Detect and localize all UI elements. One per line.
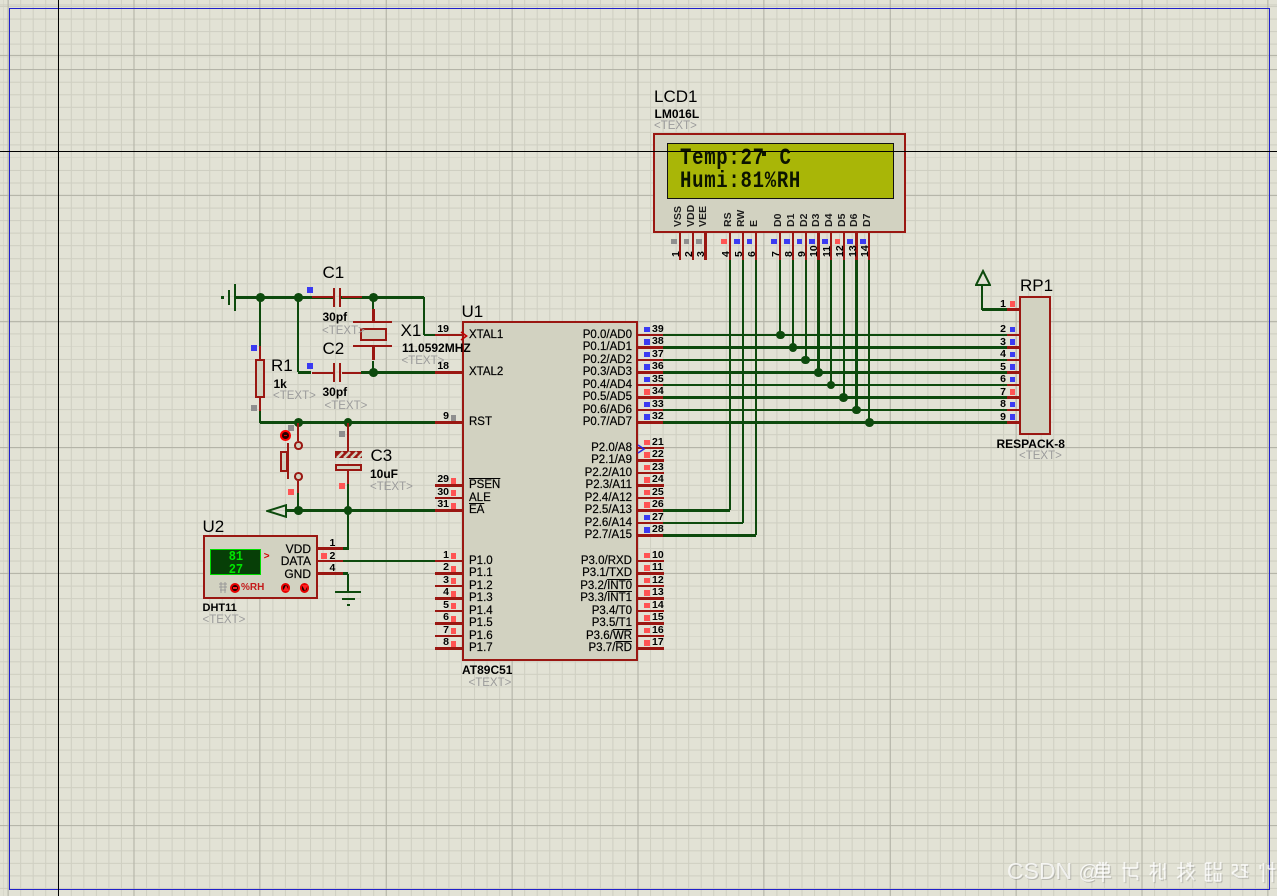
IC U1 AT89C51 body	[462, 321, 638, 661]
U1 pin 33 (P0.6)	[0, 0, 1277, 1]
wire: EA rail down to U2 VDD	[347, 511, 349, 549]
C1 logic-state square (blue)	[307, 287, 313, 293]
LCD1 pin 11 (D4)	[0, 0, 1277, 1]
LCD1 pin 12 (D5)	[0, 0, 1277, 1]
U1 pin 26 (P2.5)	[0, 0, 1277, 1]
capacitor C1	[0, 0, 1277, 1]
U1 pin 39 (P0.0)	[0, 0, 1277, 1]
value 30pf C1	[323, 311, 348, 324]
button interaction target	[0, 0, 1277, 1]
RP1 &lt;TEXT&gt;	[1019, 450, 1062, 463]
wire: VCC rail drop to XTAL1	[423, 297, 425, 335]
value 1k	[274, 378, 287, 391]
value AT89C51	[462, 664, 512, 677]
label C1	[323, 264, 345, 282]
wire: RST rail horizontal	[260, 421, 436, 423]
U1 pin 7 (P1.6)	[0, 0, 1277, 1]
U2 pin label GND	[191, 568, 311, 581]
junction node D3/P0.3	[814, 368, 823, 377]
C3 bottom state square (red)	[339, 483, 345, 489]
crystal X1 bottom lead	[372, 346, 375, 360]
U1 pin 4 (P1.3)	[0, 0, 1277, 1]
P2.0 chevron	[637, 444, 646, 454]
U1 pin 22 (P2.1)	[0, 0, 1277, 1]
label U1	[462, 303, 484, 321]
value 11.0592MHZ	[402, 342, 471, 355]
LCD1 pin 7 (D0)	[0, 0, 1277, 1]
U1 pin 16 (P3.6)	[0, 0, 1277, 1]
resistor pack RP1 body	[1019, 296, 1052, 435]
R1 top logic-state square (blue)	[251, 345, 257, 351]
U1 pin 29 (PSEN)	[0, 0, 1277, 1]
junction node RST/C3	[344, 418, 353, 427]
junction node EA/C3/VDD	[344, 506, 353, 515]
junction node D7/P0.7	[865, 418, 874, 427]
wire: R1 down to RST rail	[259, 411, 261, 423]
U1 &lt;TEXT&gt;	[469, 677, 512, 690]
U1 pin 27 (P2.6)	[0, 0, 1277, 1]
LCD1 pin 4 (RS)	[0, 0, 1277, 1]
junction node rail/C2 branch	[294, 293, 303, 302]
wire: LCD D2 drop	[805, 260, 807, 360]
value 10uF	[370, 468, 398, 481]
R1 bottom logic-state square (grey)	[251, 405, 257, 411]
R1 &lt;TEXT&gt;	[273, 390, 316, 403]
LCD1 pin 3 (VEE)	[0, 0, 1277, 1]
junction node D5/P0.5	[839, 393, 848, 402]
label X1	[401, 322, 422, 340]
ground symbol	[0, 0, 1277, 1]
wire: VCC rail right of C1	[341, 296, 423, 298]
LCD1 pin 6 (E)	[0, 0, 1277, 1]
capacitor C3 (electrolytic)	[0, 0, 1277, 1]
C1 &lt;TEXT&gt;	[322, 325, 365, 338]
wire: C2 row to XTAL2	[361, 371, 436, 373]
capacitor C3 top lead	[347, 423, 350, 451]
U1 pin 5 (P1.4)	[0, 0, 1277, 1]
U1 pin 30 (ALE)	[0, 0, 1277, 1]
U1 pin 24 (P2.3)	[0, 0, 1277, 1]
LCD1 pin 10 (D3)	[0, 0, 1277, 1]
C2 &lt;TEXT&gt;	[325, 400, 368, 413]
label C2	[323, 340, 345, 358]
LCD text line 2	[680, 170, 801, 193]
U1 pin 9 (RST)	[0, 0, 1277, 1]
U1 pin 38 (P0.1)	[0, 0, 1277, 1]
U1 pin 18 (XTAL2)	[0, 0, 1277, 1]
wire: power to RP1 pin1	[982, 308, 1007, 310]
wire: into VDD pin	[343, 547, 349, 549]
LCD1 pin 9 (D2)	[0, 0, 1277, 1]
LCD1 pin 2 (VDD)	[0, 0, 1277, 1]
junction node EA/button	[294, 506, 303, 515]
wire: into XTAL1 pin	[424, 334, 436, 336]
wire: EA rail horizontal	[286, 509, 437, 511]
RP1 pin 7	[0, 0, 1277, 1]
wire: P0.6 row to RP1 pin 8	[663, 409, 1007, 411]
label RP1	[1020, 277, 1053, 295]
wire: P0.5 row to RP1 pin 7	[663, 396, 1007, 398]
U1 pin 23 (P2.2)	[0, 0, 1277, 1]
watermark CJK glyph blocks	[1094, 860, 1277, 887]
sheet template vertical line	[58, 0, 60, 896]
U1 pin 12 (P3.2)	[0, 0, 1277, 1]
U2 pin label VDD	[191, 543, 311, 556]
label U2	[203, 518, 225, 536]
capacitor C3 bottom lead	[347, 471, 350, 484]
junction node C2 row/X1 bottom	[369, 368, 378, 377]
wire: VCC rail horizontal	[236, 296, 333, 298]
watermark CSDN	[1007, 858, 1099, 885]
U1 pin 6 (P1.5)	[0, 0, 1277, 1]
XTAL1 clock chevron	[460, 331, 469, 341]
U2 pin 4 (GND)	[0, 0, 1277, 1]
LCD1 &lt;TEXT&gt;	[654, 120, 697, 133]
U1 pin 2 (P1.1)	[0, 0, 1277, 1]
label LCD1	[654, 88, 697, 106]
U1 pin 14 (P3.4)	[0, 0, 1277, 1]
LCD1 pin 5 (RW)	[0, 0, 1277, 1]
junction node rail/R1	[256, 293, 265, 302]
U1 pin 25 (P2.4)	[0, 0, 1277, 1]
LCD1 pin 1 (VSS)	[0, 0, 1277, 1]
wire: rail down to C2 row	[297, 297, 299, 372]
U2 down button	[0, 0, 1277, 1]
resistor R1	[0, 0, 1277, 1]
wire: rail down to R1	[259, 297, 261, 346]
sensor U2 DHT11 body	[203, 535, 318, 599]
crystal X1	[0, 0, 1277, 1]
U2 pin 2 (DATA)	[0, 0, 1277, 1]
X1 &lt;TEXT&gt;	[402, 355, 445, 368]
value 30pf C2	[323, 386, 348, 399]
junction node D4/P0.4	[827, 381, 836, 390]
U2 display window	[0, 0, 1277, 1]
U1 pin 31 (EA)	[0, 0, 1277, 1]
RP1 pin 9	[0, 0, 1277, 1]
LCD1 pin 14 (D7)	[0, 0, 1277, 1]
RP1 pin 5	[0, 0, 1277, 1]
capacitor C2	[0, 0, 1277, 1]
value LM016L	[655, 108, 700, 121]
junction node D1/P0.1	[789, 343, 798, 352]
U1 pin 8 (P1.7)	[0, 0, 1277, 1]
U2 knob button	[0, 0, 1277, 1]
wire: LCD D3 drop	[817, 260, 819, 373]
U1 pin 17 (P3.7)	[0, 0, 1277, 1]
RP1 pin 3	[0, 0, 1277, 1]
label R1	[271, 357, 293, 375]
U1 pin 37 (P0.2)	[0, 0, 1277, 1]
wire: P0.2 row to RP1 pin 4	[663, 359, 1007, 361]
U1 pin 19 (XTAL1)	[0, 0, 1277, 1]
value DHT11	[203, 602, 237, 614]
U2 humidity icon (grey glyph)	[218, 582, 228, 593]
RP1 pin 1	[0, 0, 1277, 1]
ground/terminal arrow (left-pointing) on EA net	[266, 504, 288, 518]
U1 pin 13 (P3.3)	[0, 0, 1277, 1]
U1 pin 21 (P2.0)	[0, 0, 1277, 1]
LCD1 pin 8 (D1)	[0, 0, 1277, 1]
wire: GND pin to ground	[343, 572, 348, 574]
C3 top state square (grey)	[339, 431, 345, 437]
button top state square (grey)	[288, 425, 294, 431]
wire: LCD RS to U1	[729, 260, 731, 511]
label C3	[371, 447, 393, 465]
U2 pin 1 (VDD)	[0, 0, 1277, 1]
wire: P0.3 row to RP1 pin 5	[663, 371, 1007, 373]
LCD1 LM016L body	[653, 133, 907, 233]
wire: LCD E to U1	[755, 260, 757, 536]
wire: LCD D0 drop	[779, 260, 781, 335]
wire: P0.4 row to RP1 pin 6	[663, 384, 1007, 386]
LCD text line 1 C	[780, 147, 792, 170]
C3 &lt;TEXT&gt;	[370, 481, 413, 494]
wire: P0.0 row to RP1 pin 2	[663, 334, 1007, 336]
U1 pin 28 (P2.7)	[0, 0, 1277, 1]
U2 &lt;TEXT&gt;	[203, 614, 246, 627]
power arrow terminal (up)	[0, 0, 1277, 1]
wire: P0.7 row to RP1 pin 9	[663, 421, 1007, 423]
U1 pin 3 (P1.2)	[0, 0, 1277, 1]
wire: C3 to EA rail	[347, 484, 349, 511]
C2 logic-state square (blue)	[307, 363, 313, 369]
wire: DATA to P1.0	[343, 560, 437, 562]
wire: C2 row left	[298, 371, 311, 373]
junction node RST/button	[294, 418, 303, 427]
U1 pin 34 (P0.5)	[0, 0, 1277, 1]
button bottom state square (red)	[288, 489, 294, 495]
junction node D2/P0.2	[801, 356, 810, 365]
sheet template horizontal line	[0, 151, 1277, 153]
RP1 pin 8	[0, 0, 1277, 1]
U1 pin 32 (P0.7)	[0, 0, 1277, 1]
U1 pin 35 (P0.4)	[0, 0, 1277, 1]
wire: LCD D4 drop	[830, 260, 832, 385]
RP1 pin 4	[0, 0, 1277, 1]
wire: P0.1 row to RP1 pin 3	[663, 346, 1007, 348]
junction node rail/X1 top	[369, 293, 378, 302]
U2 pin label DATA	[191, 555, 311, 568]
LCD text line 1	[680, 147, 765, 170]
RP1 pin 6	[0, 0, 1277, 1]
junction node D6/P0.6	[852, 406, 861, 415]
wire: LCD D6 drop	[855, 260, 857, 410]
wire: LCD RW to U1	[742, 260, 744, 523]
U2 %RH label	[241, 582, 264, 593]
LCD degree symbol	[762, 151, 767, 156]
U2 up button	[0, 0, 1277, 1]
U1 pin 10 (P3.0)	[0, 0, 1277, 1]
RP1 pin 2	[0, 0, 1277, 1]
wire: LCD D5 drop	[843, 260, 845, 398]
U1 pin 1 (P1.0)	[0, 0, 1277, 1]
LCD1 screen	[667, 143, 894, 199]
junction node D0/P0.0	[776, 331, 785, 340]
U1 pin 15 (P3.5)	[0, 0, 1277, 1]
value RESPACK-8	[997, 438, 1065, 451]
push button (reset)	[0, 0, 1277, 1]
LCD1 pin 13 (D6)	[0, 0, 1277, 1]
wire: LCD D7 drop	[868, 260, 870, 423]
U1 pin 36 (P0.3)	[0, 0, 1277, 1]
wire: LCD D1 drop	[792, 260, 794, 348]
power terminal (battery cell symbol)	[0, 0, 1277, 1]
U1 pin 11 (P3.1)	[0, 0, 1277, 1]
wire: button to EA rail	[297, 493, 299, 511]
crystal X1 top lead	[372, 297, 375, 309]
U2 cursor mark	[264, 551, 270, 562]
